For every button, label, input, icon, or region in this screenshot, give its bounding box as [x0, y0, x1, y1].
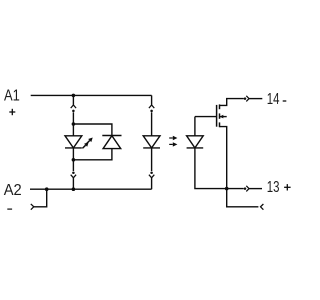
wire LED branch lower	[72, 160, 74, 171]
plug contact arrow (input branch bottom)	[71, 175, 76, 178]
wire to terminal 14 label	[249, 98, 262, 100]
wire to A2 rail	[72, 178, 74, 189]
plug contact dot (terminal 14)	[244, 97, 247, 100]
polarity mark plus (13)	[284, 184, 291, 190]
wire photodiode D4 to output common	[195, 148, 227, 189]
wire to terminal 13 label	[249, 188, 262, 190]
MOSFET Q1 source lead	[220, 127, 227, 189]
plug contact dot (input branch top)	[72, 110, 75, 113]
LED D3 triangle (optocoupler emitter)	[143, 136, 160, 148]
svg-text:14: 14	[267, 91, 280, 108]
optocoupler light arrow top	[169, 136, 177, 140]
LED D1 cathode bar	[65, 147, 82, 149]
wire node A to diode D2 top	[73, 124, 112, 136]
wire photodiode D4 to MOSFET gate	[195, 116, 216, 118]
polarity mark minus (14)	[283, 100, 287, 102]
wire to terminal 13 contact	[227, 188, 244, 190]
MOSFET Q1 channel source segment	[219, 122, 221, 127]
wire A1 rail	[31, 94, 152, 96]
node B junction dot	[72, 158, 76, 162]
junction LED branch on A2 rail	[72, 187, 76, 191]
LED D1 emission arrow 1	[86, 138, 93, 145]
junction output common node	[225, 187, 229, 191]
node A junction dot	[72, 122, 76, 126]
photodiode D4 triangle	[187, 136, 204, 148]
MOSFET Q1 body arrow	[220, 115, 224, 119]
plug contact arrow (terminal 14)	[246, 96, 249, 102]
MOSFET Q1 channel drain segment	[219, 104, 221, 109]
svg-text:A2: A2	[4, 182, 22, 199]
wire LED branch upper	[72, 95, 74, 104]
LED D1 triangle	[65, 136, 82, 148]
svg-text:13: 13	[267, 179, 280, 196]
MOSFET Q1 drain lead	[220, 99, 244, 106]
wire A2 rail	[30, 188, 152, 190]
MOSFET Q1 channel body segment	[219, 113, 221, 118]
wire node A to LED D1	[72, 124, 74, 136]
wire to node A	[72, 112, 74, 124]
photodiode D4 cathode bar	[187, 147, 204, 149]
socket contact arrow (minus stub)	[31, 204, 34, 210]
plug contact dot (input branch bottom)	[72, 171, 75, 174]
polarity mark minus (A2)	[7, 208, 12, 210]
LED D1 emission arrow 2	[82, 142, 88, 148]
plug contact dot (opto branch bottom)	[150, 171, 153, 174]
diode D2 cathode bar	[102, 135, 121, 137]
wire to LED D3	[151, 112, 153, 136]
wire diode D2 to node B	[73, 149, 112, 160]
diode D2 triangle	[103, 136, 121, 149]
svg-text:A1: A1	[4, 88, 20, 105]
MOSFET Q1 body lead	[220, 116, 227, 118]
socket contact arrow (output stub)	[261, 204, 264, 210]
wire opto LED branch upper	[151, 95, 153, 104]
junction A1 rail / LED branch	[72, 94, 76, 98]
LED D3 cathode bar	[143, 147, 160, 149]
plug contact dot (terminal 13)	[244, 187, 247, 190]
plug contact dot (opto branch top)	[150, 110, 153, 113]
plug contact arrow (opto branch top)	[149, 105, 154, 108]
plug contact arrow (input branch top)	[71, 105, 76, 108]
plug contact arrow (terminal 13)	[246, 186, 249, 192]
wire minus stub	[34, 189, 47, 207]
junction minus stub on A2 rail	[45, 187, 49, 191]
wire output stub down	[227, 189, 259, 207]
wire gate corner to photodiode D4	[194, 117, 196, 136]
polarity mark plus (A1)	[9, 109, 15, 115]
wire LED D3 down	[151, 148, 153, 171]
optocoupler light arrow bottom	[169, 142, 177, 146]
plug contact arrow (opto branch bottom)	[149, 175, 154, 178]
wire opto branch to A2 rail	[151, 178, 153, 189]
wire LED D1 to node B	[72, 148, 74, 160]
MOSFET Q1 gate electrode	[216, 105, 218, 127]
